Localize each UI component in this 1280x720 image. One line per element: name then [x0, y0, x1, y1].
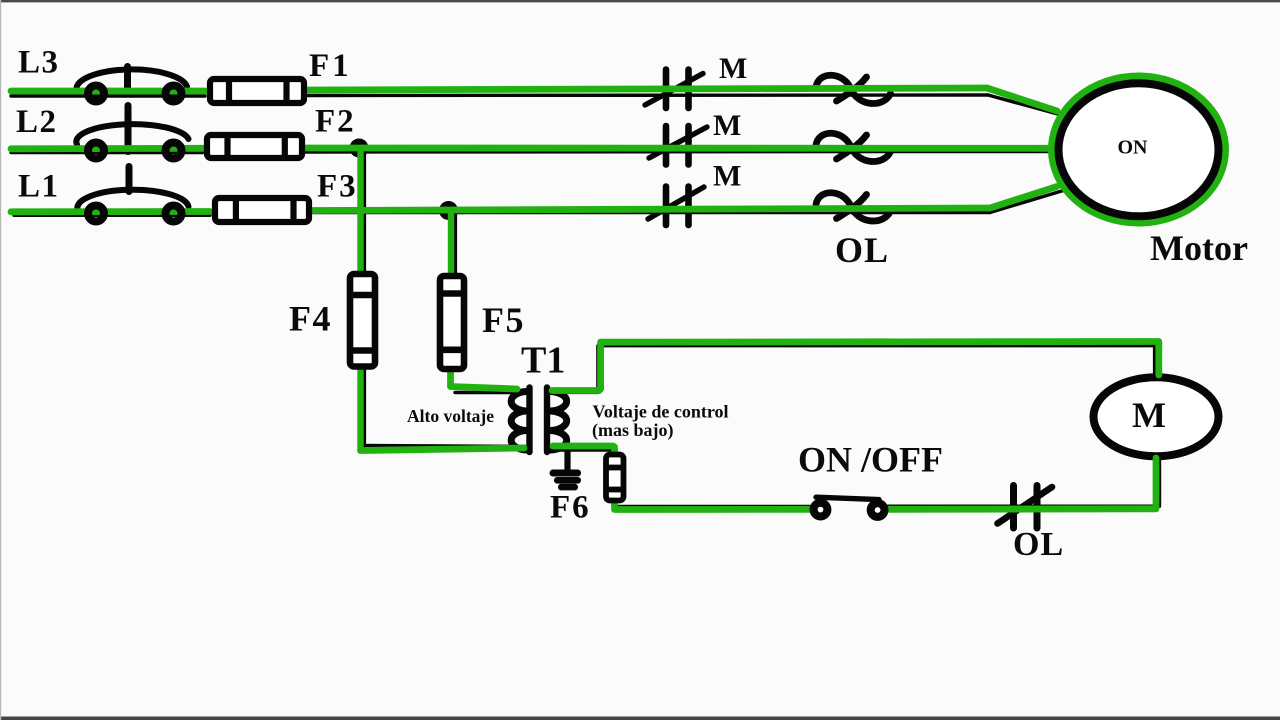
- svg-text:Voltaje de control: Voltaje de control: [593, 402, 729, 422]
- svg-text:Alto voltaje: Alto voltaje: [407, 406, 494, 426]
- svg-text:L1: L1: [18, 169, 60, 205]
- svg-text:F3: F3: [317, 169, 358, 205]
- svg-text:ON: ON: [1118, 137, 1149, 159]
- svg-text:F2: F2: [315, 104, 356, 140]
- svg-text:F1: F1: [309, 48, 352, 84]
- svg-text:M: M: [1132, 395, 1166, 435]
- svg-text:ON /OFF: ON /OFF: [798, 440, 943, 480]
- svg-text:F5: F5: [482, 300, 525, 340]
- svg-text:(mas bajo): (mas bajo): [592, 420, 674, 441]
- svg-text:M: M: [713, 160, 741, 193]
- svg-text:T1: T1: [521, 340, 565, 382]
- svg-text:L2: L2: [16, 104, 58, 140]
- svg-text:OL: OL: [1013, 526, 1064, 563]
- svg-text:F6: F6: [550, 490, 591, 526]
- svg-text:M: M: [719, 52, 747, 85]
- svg-text:OL: OL: [835, 230, 889, 270]
- svg-text:Motor: Motor: [1150, 228, 1248, 268]
- svg-text:M: M: [713, 109, 741, 142]
- svg-text:F4: F4: [289, 299, 332, 339]
- svg-text:L3: L3: [18, 45, 60, 81]
